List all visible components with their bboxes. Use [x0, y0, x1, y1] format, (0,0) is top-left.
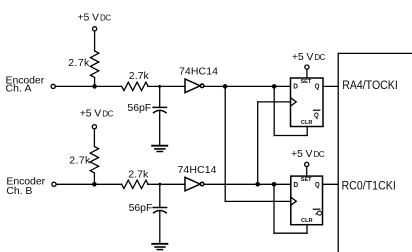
svg-text:2.7k: 2.7k	[129, 70, 150, 82]
svg-text:+5 V: +5 V	[78, 12, 100, 24]
flip-flop U2A box	[291, 78, 324, 127]
wire: node to capacitor C1	[159, 86, 161, 107]
svg-text:SET: SET	[301, 79, 312, 85]
wire: FF1 clock from Ch B (vertical + horizontal)	[258, 102, 291, 184]
+5V terminal circle B	[92, 125, 96, 129]
svg-text:74HC14: 74HC14	[178, 164, 217, 176]
wire: inverter B output to FF2 D	[204, 183, 291, 185]
wire: FF2 clock from Ch A (vertical + horizontal)	[225, 86, 291, 201]
svg-text:RC0/T1CKI: RC0/T1CKI	[342, 178, 396, 192]
resistor R3 2.7k pull-up (vertical)	[90, 147, 98, 173]
svg-text:DC: DC	[314, 150, 325, 159]
+5 VDC label (FF2 SET)	[291, 148, 325, 160]
svg-text:DC: DC	[314, 53, 325, 62]
svg-text:2.7k: 2.7k	[68, 57, 90, 69]
wire: R3 bottom to node B	[93, 173, 95, 184]
wire: R1 bottom to node A	[94, 78, 96, 87]
FF2 clock input triangle	[291, 197, 297, 205]
junction dot cap node B	[158, 183, 161, 186]
junction node A (pull-up)	[92, 84, 97, 89]
svg-text:Q: Q	[315, 82, 320, 91]
resistor R1 2.7k pull-up (vertical)	[90, 51, 98, 77]
op-amp style inverter U1A 74HC14	[185, 79, 204, 93]
flip-flop U2B box	[291, 176, 323, 225]
wire: FF2 CLR feedback from D node	[274, 184, 307, 233]
Encoder Ch. A label	[6, 74, 45, 94]
ground (channel B)	[151, 244, 168, 250]
capacitor C1 curved plate	[153, 110, 167, 113]
micro box left edge	[337, 53, 339, 252]
wire: C1 to ground	[159, 111, 161, 146]
micro box top edge	[338, 52, 412, 54]
+5V terminal circle (FF1 SET)	[305, 65, 309, 69]
wire: FF1 Q to RA4	[323, 85, 338, 87]
+5 VDC label (pull-up B)	[80, 107, 114, 119]
wire: inverter A output to FF1 D	[204, 85, 291, 87]
svg-text:Q: Q	[314, 110, 319, 119]
svg-text:2.7k: 2.7k	[128, 168, 149, 180]
resistor R2 2.7k series (horizontal)	[122, 82, 148, 90]
+5V terminal circle A	[93, 27, 97, 31]
wire: +5 terminal to resistor R1	[94, 31, 96, 51]
svg-text:CLR: CLR	[301, 120, 313, 126]
junction node B (pull-up)	[92, 182, 97, 187]
wire: C2 to ground	[159, 211, 161, 244]
wire: SET pull-up to FF1	[306, 69, 308, 78]
svg-text:D: D	[294, 180, 299, 189]
junction dot (A signal to FF2 clock)	[223, 84, 228, 89]
ground (channel A)	[151, 146, 168, 152]
+5V terminal circle (FF2 SET)	[305, 162, 309, 166]
svg-text:RA4/TOCKI: RA4/TOCKI	[342, 78, 398, 92]
wire: FF1 CLR feedback from D node	[274, 86, 307, 135]
FF1 pin label Qbar	[313, 110, 321, 119]
svg-text:+5 V: +5 V	[80, 107, 102, 119]
FF1 clock input triangle	[291, 98, 297, 106]
wire: FF2 Q to RC0	[323, 183, 339, 185]
junction dot cap node A	[158, 85, 161, 88]
svg-text:74HC14: 74HC14	[179, 65, 218, 77]
resistor R4 2.7k series (horizontal)	[122, 180, 148, 188]
inverter U1B 74HC14	[185, 177, 204, 191]
wire: SET pull-up to FF2	[306, 167, 308, 177]
+5 VDC label (FF1 SET)	[292, 51, 326, 63]
svg-text:+5 V: +5 V	[292, 51, 314, 63]
svg-text:Ch. B: Ch. B	[6, 185, 32, 197]
svg-text:DC: DC	[100, 14, 111, 23]
svg-text:+5 V: +5 V	[291, 148, 313, 160]
capacitor C1 56pF top plate	[152, 106, 167, 108]
junction dot (A signal to FF1 CLR)	[272, 84, 277, 89]
wire: terminal B to resistor R4	[56, 183, 122, 185]
wire: +5 terminal to resistor R3	[93, 129, 95, 147]
+5 VDC label (pull-up A)	[78, 12, 112, 24]
svg-text:Ch. A: Ch. A	[6, 83, 32, 95]
Encoder Ch. B label	[6, 175, 45, 196]
svg-text:56pF: 56pF	[127, 102, 151, 114]
junction dot (B signal to FF2 CLR)	[272, 182, 277, 187]
wire: terminal A to resistor R2	[55, 85, 121, 87]
Encoder B input terminal	[52, 182, 56, 186]
svg-text:Q: Q	[315, 180, 320, 189]
svg-text:D: D	[293, 82, 298, 91]
capacitor C2 56pF top plate	[152, 207, 167, 209]
svg-text:SET: SET	[301, 177, 312, 183]
wire: node to capacitor C2	[159, 184, 161, 207]
svg-text:2.7k: 2.7k	[69, 155, 91, 167]
svg-text:DC: DC	[102, 109, 113, 118]
Encoder A input terminal	[51, 84, 55, 88]
FF2 pin label Qbar	[313, 209, 324, 216]
capacitor C2 curved plate	[153, 211, 167, 214]
wire: R4 to inverter input	[148, 183, 185, 185]
svg-text:CLR: CLR	[301, 218, 313, 224]
wire: R2 to inverter input	[148, 85, 185, 87]
svg-text:56pF: 56pF	[129, 202, 153, 214]
svg-text:Q: Q	[315, 210, 324, 216]
junction dot (B signal to FF1 clock)	[255, 182, 260, 187]
